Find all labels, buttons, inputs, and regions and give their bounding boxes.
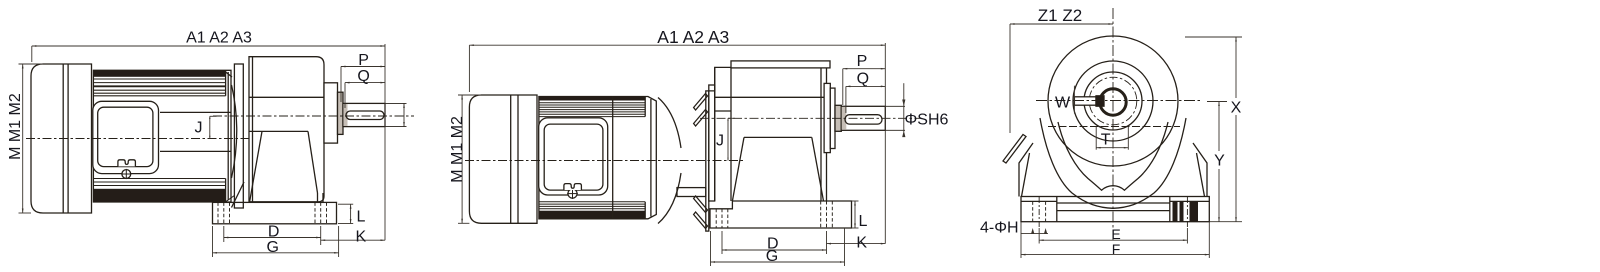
gearbox top plate <box>731 61 830 68</box>
terminal box screw <box>122 170 131 179</box>
right foot bolt hole dashes <box>821 201 833 228</box>
shaft root shading <box>842 107 847 130</box>
terminal box inner <box>98 107 153 166</box>
fins mid seam <box>612 97 614 219</box>
svg-text:M M1 M2: M M1 M2 <box>449 116 466 183</box>
svg-text:A1 A2 A3: A1 A2 A3 <box>186 30 252 47</box>
dim L line <box>350 204 352 223</box>
svg-text:W: W <box>1055 95 1071 112</box>
VIEW1 labels <box>7 30 370 257</box>
middle bar lines <box>1057 202 1170 204</box>
output shaft centerline <box>700 117 921 119</box>
dim M extensions <box>458 94 481 96</box>
bell lower slant <box>232 182 245 208</box>
dim Z1 Z2 line <box>1010 23 1113 25</box>
key (filled) <box>1096 96 1104 106</box>
VIEW2 <box>465 61 921 231</box>
left foot bolt hole dashes <box>1033 201 1046 221</box>
dim L line <box>854 201 856 228</box>
gearbox left face line <box>252 57 254 202</box>
gearbox mid line <box>744 136 812 138</box>
shaft keyway slot <box>845 115 882 124</box>
shaft edge extension lines <box>885 105 905 107</box>
dim Y line <box>1218 102 1220 152</box>
shared right extension line <box>384 44 386 240</box>
motor end ring <box>227 72 229 200</box>
label 4-PhiH leader <box>1021 233 1048 235</box>
gearbox foot column lines <box>317 193 319 202</box>
gearbox parting line <box>715 96 827 98</box>
dim P extension <box>340 67 342 103</box>
svg-text:K: K <box>356 228 367 245</box>
svg-text:F: F <box>1112 241 1121 257</box>
lower dashed line <box>1048 126 1180 128</box>
flange ribs bottom <box>694 212 708 229</box>
dim J line <box>727 118 729 160</box>
svg-text:G: G <box>266 239 278 256</box>
dim M line <box>22 64 24 213</box>
input flange disk <box>706 91 709 231</box>
dim D line <box>722 249 827 251</box>
dim P extension <box>842 69 844 105</box>
bearing boss step1 <box>830 88 835 148</box>
base plate <box>710 201 852 228</box>
shaft root shading <box>343 104 347 126</box>
bell housing arc bottom <box>658 173 681 224</box>
dim X extensions <box>1185 36 1242 38</box>
gearbox mid line <box>249 130 308 132</box>
svg-text:Q: Q <box>857 71 869 88</box>
dim K line <box>321 239 385 241</box>
vent strut <box>1003 135 1026 164</box>
VIEW1 <box>26 57 414 224</box>
gearbox pedestal left taper <box>250 131 263 202</box>
dim D extensions <box>223 226 225 242</box>
gearbox body right edge <box>826 68 828 201</box>
motor fins bottom lines <box>539 202 645 209</box>
shared right extension line <box>884 43 886 244</box>
motor end ring <box>650 99 652 217</box>
VIEW2 dimensions <box>458 43 905 266</box>
dim Z left extension <box>1009 24 1011 133</box>
base outer frame <box>1021 197 1209 222</box>
bearing plate <box>824 83 830 152</box>
svg-text:P: P <box>358 52 369 69</box>
svg-text:Q: Q <box>357 68 369 85</box>
dim G line <box>213 252 339 254</box>
right lug <box>1193 143 1207 197</box>
bearing circle <box>1084 72 1142 130</box>
svg-text:D: D <box>268 223 280 240</box>
motor body outline <box>93 70 231 202</box>
svg-text:M M1 M2: M M1 M2 <box>7 93 24 160</box>
bolt circle (dash-dot) <box>1089 77 1137 125</box>
cap seam lines <box>62 64 64 213</box>
dim G extensions <box>212 226 214 257</box>
bolt centerlines <box>1038 197 1040 227</box>
cap seam lines <box>510 95 512 223</box>
dim D extensions <box>721 231 723 254</box>
bearing boss step2 <box>338 92 344 134</box>
svg-text:L: L <box>859 213 868 230</box>
motor foot tab <box>677 188 706 197</box>
left foot bolt hole dashes <box>716 209 728 228</box>
foot top lines <box>1021 200 1057 202</box>
shaft edge extension lines <box>385 102 407 104</box>
dim T line <box>1096 147 1128 149</box>
dim F extensions <box>1020 222 1022 258</box>
dim Q line <box>846 85 885 87</box>
svg-text:G: G <box>766 248 778 265</box>
dim M extensions <box>19 63 44 65</box>
dim F line <box>1021 254 1209 256</box>
shaft diameter dim line <box>903 83 905 132</box>
gearbox top-left step <box>709 67 731 91</box>
bell housing arc <box>232 85 237 178</box>
input flange plate <box>234 64 243 208</box>
svg-text:4-ΦH: 4-ΦH <box>980 220 1019 237</box>
svg-text:E: E <box>1111 226 1120 242</box>
svg-text:J: J <box>195 119 203 136</box>
motor fan cover cap <box>31 64 92 213</box>
bearing boss step1 <box>324 83 338 143</box>
right foot bolt hole dashes <box>315 202 327 223</box>
dim E line <box>1039 239 1187 241</box>
VIEW3 labels <box>980 6 1242 257</box>
output shaft <box>841 106 885 130</box>
VIEW2 labels <box>449 27 949 265</box>
fins end verticals <box>644 97 646 117</box>
dim E extensions <box>1038 228 1040 244</box>
svg-text:J: J <box>716 133 724 150</box>
dim T extensions <box>1095 127 1097 150</box>
base inner verticals <box>1056 197 1058 222</box>
dim A left extension <box>468 45 470 92</box>
fins end taper <box>225 70 227 96</box>
motor fan cover cap <box>469 95 537 223</box>
svg-text:X: X <box>1231 100 1242 117</box>
motor fins bottom dark band <box>93 189 225 202</box>
dim K line <box>827 243 886 245</box>
dim L extensions <box>338 203 353 205</box>
output shaft centerline <box>213 115 414 117</box>
housing inner skirt with hump <box>1058 122 1168 190</box>
gearbox body left edge <box>714 67 716 201</box>
dim X line <box>1235 37 1237 98</box>
shaft bore circle (bold) <box>1100 89 1126 115</box>
shaft keyway slot <box>346 111 384 120</box>
keyway outline <box>1074 97 1096 105</box>
motor fins bottom dark band <box>539 211 645 219</box>
dim D line <box>224 237 321 239</box>
motor fins top dark band <box>93 71 225 77</box>
gearbox lower taper right <box>812 137 824 201</box>
base plate <box>213 202 337 223</box>
dim G line <box>711 261 845 263</box>
dim J line <box>209 116 211 138</box>
motor fins top dark band <box>539 97 645 101</box>
flange ribs top <box>694 94 708 111</box>
svg-text:K: K <box>856 234 867 251</box>
horizontal centerline <box>1036 100 1200 102</box>
VIEW1 dimensions <box>19 44 405 257</box>
terminal box screw <box>568 189 577 198</box>
gearbox body <box>249 57 324 202</box>
motor centerline <box>465 160 745 162</box>
svg-text:A1 A2 A3: A1 A2 A3 <box>657 27 729 47</box>
gearbox lower taper left <box>732 137 744 201</box>
dim P line <box>341 66 385 68</box>
dim G extensions <box>710 231 712 266</box>
motor body outline <box>539 97 656 219</box>
housing outer circle <box>1048 36 1178 166</box>
right foot black bars <box>1173 201 1178 221</box>
bearing boss step2 <box>835 105 841 131</box>
gearbox small step line <box>715 110 731 112</box>
svg-text:T: T <box>1101 132 1111 149</box>
shaft end diameter dim <box>403 103 405 126</box>
bell housing arc top <box>658 98 681 149</box>
dim A left extension <box>31 46 33 62</box>
left foot bolt hole dashes <box>218 202 230 223</box>
terminal box outer <box>93 101 159 173</box>
terminal box latch notch <box>118 160 135 167</box>
dim L extensions <box>852 200 859 202</box>
vertical centerline <box>1112 8 1114 240</box>
svg-text:L: L <box>357 209 366 226</box>
gearbox pedestal right taper <box>308 131 318 193</box>
terminal box outer <box>539 118 608 195</box>
motor fins top lines <box>539 103 645 117</box>
svg-text:ΦSH6: ΦSH6 <box>905 112 949 129</box>
dim Q line <box>345 82 385 84</box>
motor fins bottom lines <box>93 179 225 186</box>
left lug <box>1019 143 1033 197</box>
gearbox parting line <box>249 96 324 98</box>
adapter face plate <box>709 85 715 201</box>
front boss circle <box>1073 61 1153 141</box>
dim A1 A2 A3 line <box>469 44 885 46</box>
dim W extension line <box>1073 86 1075 114</box>
VIEW3 <box>1003 8 1209 240</box>
gearbox inner verticals <box>730 68 732 201</box>
dim A1 A2 A3 line <box>32 45 385 47</box>
svg-text:Z1 Z2: Z1 Z2 <box>1038 6 1082 25</box>
dim Y extension <box>1207 101 1227 103</box>
svg-text:P: P <box>857 53 868 70</box>
housing outer skirt <box>1040 118 1186 208</box>
VIEW3 dimensions <box>1010 24 1242 258</box>
terminal box inner <box>544 124 603 190</box>
output shaft <box>343 103 385 126</box>
motor fins top lines <box>93 79 225 96</box>
svg-text:Y: Y <box>1214 153 1225 170</box>
dim P line <box>843 68 886 70</box>
junction body lines <box>160 111 231 113</box>
terminal box latch notch <box>564 184 582 190</box>
dim M line <box>461 95 463 223</box>
dim Q extension <box>845 86 847 113</box>
motor centerline <box>26 138 252 140</box>
dim Q extension <box>344 83 346 108</box>
